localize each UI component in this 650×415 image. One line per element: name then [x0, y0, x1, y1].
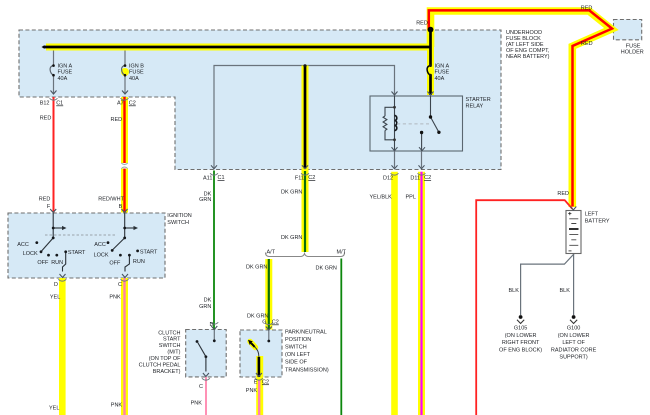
svg-text:RED: RED	[581, 41, 593, 47]
svg-text:D: D	[210, 322, 214, 328]
svg-text:D12: D12	[383, 175, 393, 181]
svg-text:A/T: A/T	[267, 249, 276, 255]
svg-text:BATTERY: BATTERY	[585, 218, 610, 224]
svg-text:CLUTCH PEDAL: CLUTCH PEDAL	[139, 363, 181, 369]
svg-text:SWITCH: SWITCH	[159, 343, 181, 349]
svg-text:FUSE: FUSE	[129, 70, 144, 76]
svg-text:ACC: ACC	[94, 242, 106, 248]
svg-text:40A: 40A	[435, 76, 445, 82]
svg-text:IGN A: IGN A	[435, 64, 450, 70]
svg-text:START: START	[163, 337, 181, 343]
svg-text:PNK: PNK	[246, 388, 258, 394]
svg-text:BLK: BLK	[560, 288, 571, 294]
svg-text:C: C	[199, 384, 203, 390]
svg-text:DK GRN: DK GRN	[281, 235, 302, 241]
svg-text:RUN: RUN	[51, 260, 63, 266]
svg-text:RED: RED	[581, 5, 593, 11]
svg-text:DK GRN: DK GRN	[247, 314, 268, 320]
svg-text:(ON TOP OF: (ON TOP OF	[149, 356, 181, 362]
svg-text:IGN B: IGN B	[129, 64, 144, 70]
svg-text:START: START	[68, 250, 86, 256]
svg-text:40A: 40A	[129, 76, 139, 82]
svg-text:LEFT: LEFT	[585, 211, 599, 217]
svg-text:OF ENG BLOCK): OF ENG BLOCK)	[499, 347, 542, 353]
svg-text:DK: DK	[204, 298, 212, 304]
svg-text:E: E	[254, 380, 258, 386]
svg-text:PNK: PNK	[111, 403, 123, 409]
svg-text:SWITCH: SWITCH	[167, 220, 189, 226]
svg-text:LOCK: LOCK	[94, 252, 109, 258]
svg-text:SUPPORT): SUPPORT)	[559, 355, 587, 361]
svg-text:C2: C2	[308, 175, 315, 181]
svg-text:RED: RED	[557, 191, 569, 197]
svg-text:C1: C1	[218, 175, 225, 181]
svg-text:RED: RED	[40, 115, 52, 121]
svg-text:(ON LOWER: (ON LOWER	[505, 333, 537, 339]
svg-text:BLK: BLK	[509, 288, 520, 294]
svg-text:DK GRN: DK GRN	[316, 265, 337, 271]
svg-text:IGNITION: IGNITION	[167, 213, 191, 219]
svg-text:G100: G100	[567, 326, 580, 332]
svg-text:RIGHT FRONT: RIGHT FRONT	[502, 340, 540, 346]
svg-text:HOLDER: HOLDER	[621, 50, 644, 56]
svg-text:G105: G105	[514, 326, 527, 332]
svg-text:M/T: M/T	[337, 249, 347, 255]
svg-text:LEFT OF: LEFT OF	[562, 340, 585, 346]
svg-text:A7: A7	[117, 101, 124, 107]
svg-text:B: B	[119, 204, 123, 210]
svg-text:PPL: PPL	[406, 195, 416, 201]
svg-text:POSITION: POSITION	[285, 337, 311, 343]
svg-text:RELAY: RELAY	[466, 103, 484, 109]
svg-text:ACC: ACC	[17, 242, 29, 248]
svg-text:RED: RED	[111, 117, 123, 123]
svg-text:SWITCH: SWITCH	[285, 345, 307, 351]
svg-text:CLUTCH: CLUTCH	[158, 330, 180, 336]
svg-text:FUSE: FUSE	[435, 70, 450, 76]
svg-text:LOCK: LOCK	[23, 251, 38, 257]
svg-text:YEL: YEL	[50, 295, 60, 301]
svg-text:C2: C2	[424, 175, 431, 181]
svg-text:(ON LEFT: (ON LEFT	[285, 352, 311, 358]
svg-text:40A: 40A	[58, 76, 68, 82]
svg-text:YEL: YEL	[49, 405, 59, 411]
svg-text:FUSE: FUSE	[58, 70, 73, 76]
svg-text:FUSE: FUSE	[626, 44, 641, 50]
svg-text:SIDE OF: SIDE OF	[285, 360, 308, 366]
svg-text:START: START	[140, 250, 158, 256]
svg-text:OFF: OFF	[37, 260, 49, 266]
svg-text:(M/T): (M/T)	[167, 350, 180, 356]
svg-text:GRN: GRN	[199, 304, 211, 310]
svg-text:TRANSMISSION): TRANSMISSION)	[285, 367, 329, 373]
svg-text:D11: D11	[410, 175, 420, 181]
svg-text:BRACKET): BRACKET)	[153, 369, 181, 375]
svg-text:DK GRN: DK GRN	[246, 264, 267, 270]
svg-text:PNK: PNK	[191, 400, 203, 406]
svg-text:PNK: PNK	[109, 295, 121, 301]
svg-text:YEL/BLK: YEL/BLK	[370, 195, 393, 201]
svg-text:RED: RED	[39, 197, 51, 203]
svg-text:RED: RED	[416, 21, 428, 27]
svg-text:C: C	[118, 282, 122, 288]
svg-text:D: D	[54, 282, 58, 288]
svg-text:GRN: GRN	[199, 197, 211, 203]
svg-text:NEAR BATTERY): NEAR BATTERY)	[506, 54, 550, 60]
svg-text:RUN: RUN	[133, 259, 145, 265]
svg-text:PARK/NEUTRAL: PARK/NEUTRAL	[285, 329, 327, 335]
svg-text:G: G	[262, 320, 266, 326]
svg-text:F11: F11	[295, 175, 304, 181]
svg-text:RED/WHT: RED/WHT	[98, 196, 124, 202]
svg-text:B12: B12	[40, 101, 50, 107]
svg-text:DK GRN: DK GRN	[281, 190, 302, 196]
svg-text:OFF: OFF	[109, 260, 121, 266]
svg-text:IGN A: IGN A	[58, 64, 73, 70]
svg-text:A11: A11	[203, 175, 212, 181]
svg-text:STARTER: STARTER	[466, 97, 491, 103]
svg-text:RADIATOR CORE: RADIATOR CORE	[551, 347, 597, 353]
svg-text:(ON LOWER: (ON LOWER	[558, 333, 590, 339]
